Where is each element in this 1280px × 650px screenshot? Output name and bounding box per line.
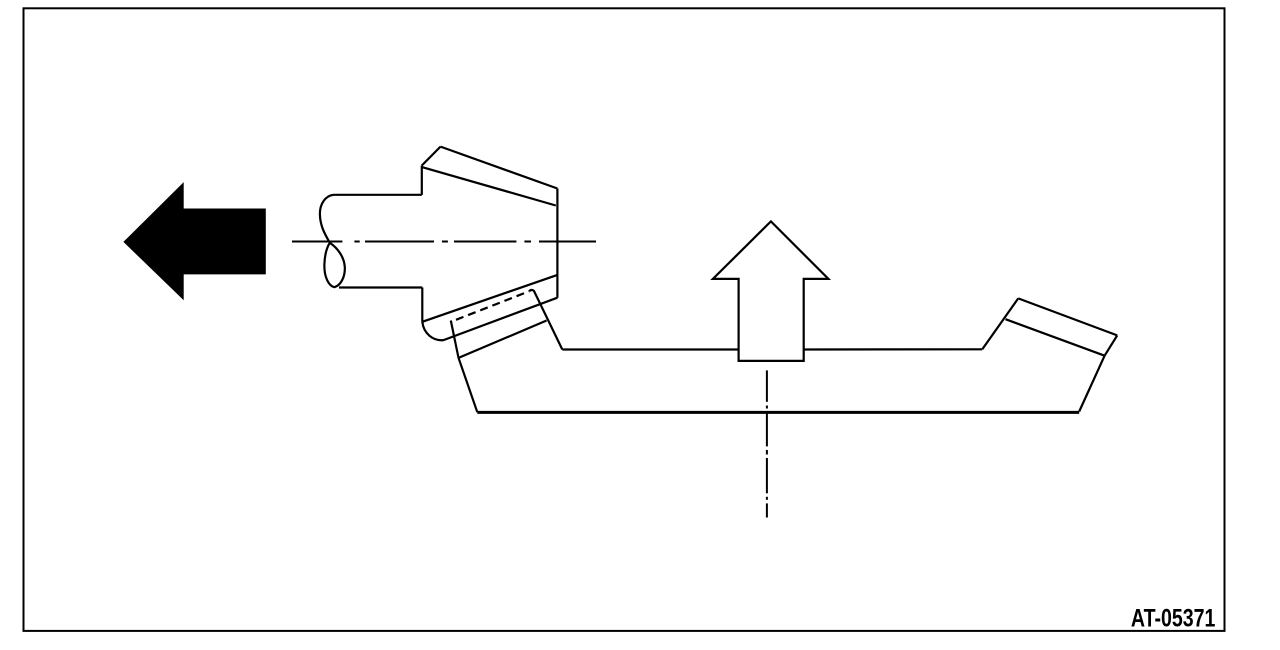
left tooth band: right side with hook xyxy=(529,290,562,350)
top band inner edge xyxy=(422,167,556,205)
top face right of arrow xyxy=(802,348,982,350)
shaft break loop xyxy=(324,243,344,287)
ring gear vertical centerline (dash-dot) xyxy=(766,370,768,517)
right side profile xyxy=(1079,356,1104,412)
top band outer edge xyxy=(441,147,558,189)
top chamfer xyxy=(422,147,441,166)
left side profile xyxy=(459,358,478,412)
gear face left vertical (top) xyxy=(421,166,423,195)
right tooth band: inner edge xyxy=(1006,319,1105,356)
right tooth band: left edge xyxy=(982,298,1018,349)
right face vertical xyxy=(556,189,558,298)
shaft bottom edge xyxy=(339,286,422,288)
bottom band upper edge xyxy=(422,275,557,322)
black direction arrow (points left) xyxy=(123,182,265,300)
bottom edge xyxy=(477,411,1079,414)
hollow up arrow xyxy=(713,221,829,361)
bottom band outer edge with fillet xyxy=(422,298,557,341)
shaft top edge xyxy=(334,194,422,196)
ring gear outline xyxy=(451,290,1117,412)
hidden tooth line (dashed) xyxy=(456,291,529,320)
pinion horizontal centerline (dash-dot) xyxy=(292,241,596,243)
drive pinion outline xyxy=(320,147,558,341)
left tooth band: inner edge xyxy=(459,321,547,358)
right tooth band: end face xyxy=(1105,335,1118,355)
top face left of arrow xyxy=(562,348,740,350)
gear face left vertical (bottom) xyxy=(421,288,423,322)
svg-text:AT-05371: AT-05371 xyxy=(1131,604,1215,632)
left tooth band: left face xyxy=(451,321,459,358)
right tooth band: top edge xyxy=(1018,298,1117,335)
shaft break big arc xyxy=(320,195,334,243)
